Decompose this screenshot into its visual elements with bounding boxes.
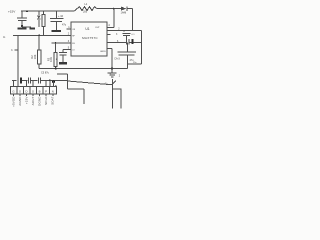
diode D2 <box>121 6 133 14</box>
wire aux line <box>68 81 113 85</box>
node dot R3 bottom <box>55 68 57 70</box>
svg-text:AOUT: AOUT <box>31 96 35 105</box>
wire arrow tick <box>113 81 116 84</box>
svg-text:+15V: +15V <box>8 10 16 14</box>
wire switch node <box>97 8 121 10</box>
resistor R3 <box>46 43 57 69</box>
svg-text:+15V: +15V <box>24 96 28 104</box>
svg-text:+5VDD: +5VDD <box>11 96 15 107</box>
wire drop left <box>83 89 85 104</box>
ground under C2 <box>51 30 61 32</box>
svg-text:20u: 20u <box>83 11 88 14</box>
svg-text:MAX757C: MAX757C <box>82 36 98 40</box>
connector J1 <box>10 87 56 94</box>
svg-text:10K: 10K <box>49 57 53 62</box>
wire pin1 <box>67 28 72 30</box>
wire gnd drop <box>111 49 113 69</box>
ground under C1 <box>18 28 27 30</box>
node dot R1 bottom <box>38 34 40 36</box>
svg-text:CA-3: CA-3 <box>114 57 120 60</box>
svg-text:GND5: GND5 <box>100 51 107 53</box>
svg-text:1N48: 1N48 <box>121 13 127 15</box>
svg-text:47u: 47u <box>130 59 135 62</box>
capacitor C4 electrolytic <box>127 39 142 64</box>
svg-text:DGND: DGND <box>37 96 41 106</box>
wire output line <box>107 30 141 32</box>
wire LX drop <box>113 9 115 28</box>
svg-text:+ 10: + 10 <box>58 14 64 18</box>
svg-text:U1: U1 <box>85 27 89 31</box>
resistor R2 <box>30 35 41 68</box>
wire pin3 <box>52 42 72 44</box>
wire output bus lower <box>57 73 68 75</box>
capacitor C5 output <box>114 43 136 69</box>
wire hook right <box>112 89 121 109</box>
capacitor C7 electrolytic <box>18 77 22 83</box>
svg-text:10K: 10K <box>33 54 37 59</box>
node junction dot A <box>26 10 28 12</box>
svg-text:C5 87u: C5 87u <box>41 71 50 74</box>
diode D1 zener <box>37 11 41 27</box>
wire stubs above connector <box>14 80 54 86</box>
wire stubs below connector <box>14 94 53 96</box>
wire top rail <box>21 10 74 12</box>
ground mid <box>108 69 117 109</box>
capacitor C8 <box>28 78 30 84</box>
inductor L1 <box>77 3 97 14</box>
wire bottom link <box>68 88 85 90</box>
wire right rail <box>140 31 142 65</box>
wire ground bus top-left <box>22 26 31 28</box>
resistor R1 <box>42 11 45 35</box>
node dot bus big <box>52 80 55 83</box>
wire input drop <box>17 35 19 86</box>
wire pin4 stub <box>107 26 114 28</box>
svg-text:SDAT: SDAT <box>51 96 55 104</box>
svg-text:P: P <box>45 89 47 93</box>
wire feedback bus <box>39 68 127 70</box>
wire jog to rail <box>128 63 142 65</box>
svg-text:OUT: OUT <box>95 27 100 29</box>
svg-text:G: G <box>32 89 34 93</box>
node dot LX <box>113 8 115 10</box>
capacitor C3 <box>56 49 67 62</box>
wire diode cathode drop <box>132 9 134 31</box>
capacitor C2 electrolytic <box>50 11 67 30</box>
svg-text:47u: 47u <box>62 23 67 26</box>
wire pin right mid stub <box>107 34 111 36</box>
ground under C3 <box>59 62 67 64</box>
wire connector top bus <box>12 79 68 81</box>
svg-text:N: N <box>52 89 54 93</box>
capacitor C9 <box>38 78 40 84</box>
svg-text:AGND: AGND <box>18 96 22 106</box>
svg-text:SCLK: SCLK <box>44 96 48 104</box>
wire drop mid <box>67 74 69 89</box>
svg-text:B: B <box>39 89 41 93</box>
node nub corner <box>55 85 57 87</box>
node dot gnd <box>111 67 113 69</box>
wire pin2 input net <box>13 34 71 36</box>
svg-text:D: D <box>25 89 27 93</box>
wire pin5 <box>63 48 71 50</box>
svg-text:G: G <box>12 89 14 93</box>
wire pin GND stub <box>107 48 112 50</box>
ground under D1 <box>30 28 36 30</box>
capacitor C1 <box>17 11 27 27</box>
node tick b <box>15 49 19 51</box>
wire pin6 <box>107 42 126 44</box>
net labels below connector <box>11 96 54 107</box>
IC U1 MAX757 <box>71 22 107 56</box>
node dot pin3 <box>55 42 57 44</box>
capacitor C6 small <box>123 31 136 43</box>
node dot bus small <box>49 79 51 81</box>
